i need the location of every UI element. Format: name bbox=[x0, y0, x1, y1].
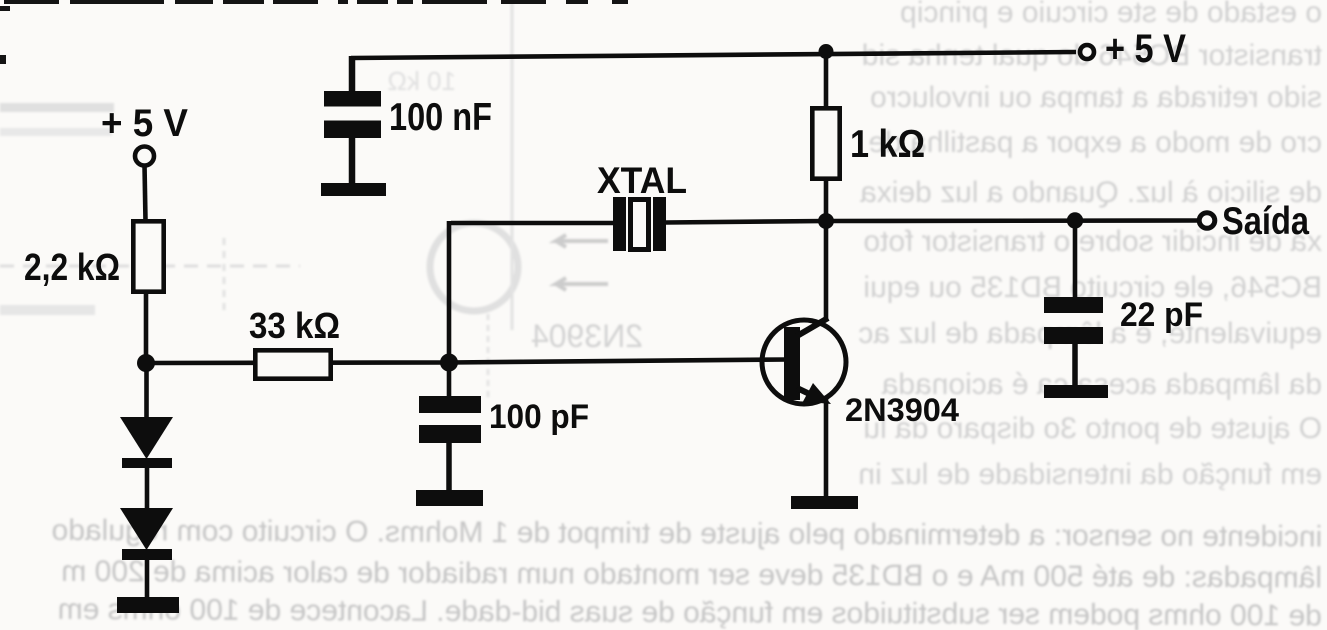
node top rail / R3 bbox=[819, 44, 834, 59]
crystal XTAL bbox=[613, 197, 666, 251]
svg-text:100 nF: 100 nF bbox=[389, 96, 492, 139]
wire 1k bottom bbox=[824, 180, 829, 222]
wire C2 riser bottom bbox=[446, 443, 452, 492]
top edge cropped text dashes bbox=[0, 0, 628, 64]
wire D1 to D2 bbox=[145, 466, 150, 511]
wire base line bbox=[146, 360, 788, 364]
resistor R1 2,2k bbox=[133, 221, 163, 291]
wire emitter to ground bbox=[824, 399, 829, 498]
wire C3 riser top bbox=[1073, 221, 1078, 299]
wire D2 to ground bbox=[145, 560, 150, 599]
svg-text:de 100 ohms podem ser substitu: de 100 ohms podem ser substituidos em fu… bbox=[58, 593, 1322, 630]
svg-text:+ 5 V: + 5 V bbox=[101, 102, 188, 145]
wire C1 to ground bbox=[349, 136, 356, 185]
wire output line right of crystal bbox=[666, 221, 1197, 223]
ground C3 bbox=[1044, 385, 1108, 398]
svg-text:cro de modo a expor a pastilha: cro de modo a expor a pastilha de bbox=[868, 126, 1322, 159]
svg-text:+ 5 V: + 5 V bbox=[1105, 27, 1186, 71]
wire C2 riser top bbox=[447, 363, 452, 398]
capacitor C3 22pF bbox=[1044, 297, 1103, 344]
svg-text:o estado de ste circuio e prin: o estado de ste circuio e princip bbox=[900, 0, 1322, 29]
svg-text:em função da intensidade de lu: em função da intensidade de luz in bbox=[858, 458, 1322, 491]
ghost arrows bbox=[556, 235, 608, 247]
diode D2 bbox=[120, 508, 173, 560]
svg-text:sido retirada a tampa ou invol: sido retirada a tampa ou involucro bbox=[870, 81, 1322, 114]
node base junction bbox=[137, 354, 155, 372]
svg-text:22 pF: 22 pF bbox=[1120, 296, 1203, 334]
wire node to D1 bbox=[144, 363, 149, 420]
grey scan streaks bbox=[0, 128, 112, 136]
svg-text:100 pF: 100 pF bbox=[489, 398, 589, 436]
wire crystal riser bbox=[447, 221, 452, 363]
wire collector bbox=[824, 222, 829, 319]
wire 1k top bbox=[824, 52, 829, 107]
ground C1 bbox=[321, 183, 386, 196]
capacitor C2 100pF bbox=[419, 396, 481, 443]
svg-text:Saída: Saída bbox=[1222, 200, 1309, 243]
ghost circle (component bleed) bbox=[430, 223, 518, 311]
svg-text:incidente no sensor: a determi: incidente no sensor: a determinado pelo … bbox=[51, 514, 1322, 554]
ground Q1 bbox=[791, 496, 858, 509]
svg-text:2N3904: 2N3904 bbox=[531, 318, 643, 354]
svg-text:2N3904: 2N3904 bbox=[845, 392, 959, 428]
wire top rail bbox=[351, 52, 1076, 58]
capacitor C1 100nF bbox=[324, 91, 381, 138]
node crystal junction bbox=[440, 354, 458, 372]
ground C2 bbox=[416, 490, 483, 506]
transistor Q1 2N3904 bbox=[762, 318, 846, 404]
resistor R2 33k bbox=[255, 350, 330, 378]
wire riser to C1 bbox=[349, 56, 356, 92]
resistor R3 1k bbox=[812, 108, 839, 178]
svg-text:33 kΩ: 33 kΩ bbox=[249, 305, 340, 346]
wire R1 to node bbox=[144, 292, 149, 364]
svg-text:2,2 kΩ: 2,2 kΩ bbox=[24, 247, 120, 289]
wire C3 riser bottom bbox=[1072, 343, 1078, 387]
svg-text:10 kΩ: 10 kΩ bbox=[387, 66, 456, 96]
svg-text:XTAL: XTAL bbox=[597, 159, 687, 201]
wire +5V to R1 bbox=[145, 165, 146, 221]
node C3 / output bbox=[1067, 212, 1083, 228]
wire output line left of crystal bbox=[451, 221, 614, 226]
svg-text:1 kΩ: 1 kΩ bbox=[850, 123, 925, 166]
svg-text:lâmpadas: de até 500 mA e o BD: lâmpadas: de até 500 mA e o BD135 deve s… bbox=[61, 555, 1322, 595]
terminal +5V left bbox=[135, 147, 154, 166]
ground diodes bbox=[117, 597, 179, 613]
node collector / output bbox=[818, 213, 834, 229]
terminal +5V right bbox=[1080, 45, 1094, 59]
diode D1 bbox=[120, 417, 173, 468]
terminal Saída bbox=[1199, 213, 1215, 229]
